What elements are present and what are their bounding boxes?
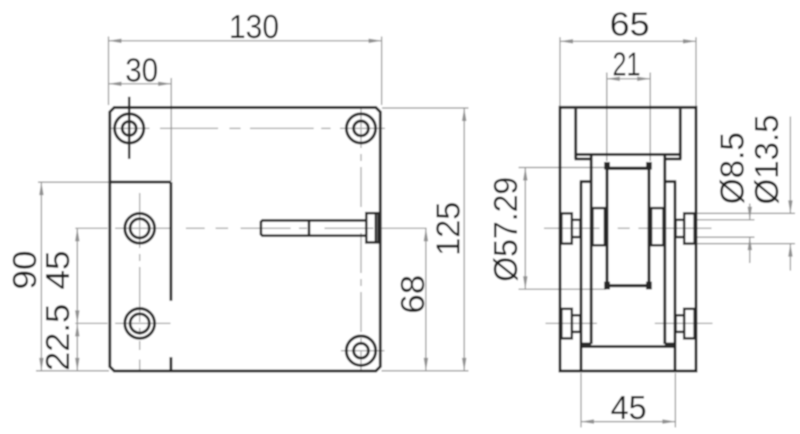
ext line 21 left (606, 73, 608, 162)
centerline top holes dash c (229, 127, 240, 129)
dim line 125 (463, 108, 465, 371)
centerline top holes dash a (111, 127, 150, 129)
ext line D13.5 bottom (698, 243, 796, 245)
hole top-left outer (115, 114, 144, 143)
centerline strip holes vertical bottom dash (139, 360, 141, 371)
dim line 68 (425, 228, 427, 371)
strip hole lower inner (130, 314, 149, 333)
roller top bar (606, 167, 651, 170)
lower bolt washer left (572, 315, 581, 332)
roller left edge (605, 162, 608, 289)
hole top-left inner (122, 121, 136, 135)
centerline bolt axis solid part a (75, 227, 107, 229)
arrow 45 top (75, 228, 79, 241)
centerline bolt axis dash d (299, 227, 307, 229)
arrow 30 right (158, 82, 171, 86)
svg-text:Ø13.5: Ø13.5 (749, 115, 786, 205)
centerline upper bolt dash a (544, 227, 600, 229)
ext line 65 right (695, 37, 697, 106)
arrow 45b right (662, 419, 675, 423)
svg-text:Ø8.5: Ø8.5 (714, 132, 751, 204)
ext line D57 bottom (519, 288, 607, 290)
arrow 65 right (683, 39, 696, 43)
ext line 130 left (108, 37, 110, 106)
roller bottom bar (606, 284, 651, 287)
bolt head (366, 213, 378, 242)
upper bolt head right (684, 213, 694, 243)
inner wall left (V4) (590, 154, 593, 344)
hole bottom-right outer (346, 336, 375, 365)
svg-text:125: 125 (431, 202, 468, 256)
arrow 130 right (369, 39, 382, 43)
ext line D13.5 top (698, 212, 796, 214)
lower bolt washer right (676, 315, 685, 332)
ext line 90/22.5 bottom (36, 370, 109, 372)
centerline strip hole lower b (115, 322, 170, 324)
svg-text:130: 130 (229, 9, 279, 46)
arrow 125 bottom (462, 358, 466, 371)
side plate left (V3) (580, 182, 583, 371)
step line (top of notch) (110, 181, 171, 184)
roller cap tab top-left (604, 162, 610, 170)
dim line D57 (524, 168, 526, 290)
arrow D8.5 lower (748, 237, 752, 250)
centerline right hole column lower run (360, 233, 362, 371)
arrow 45 bottom (75, 310, 79, 323)
centerline bolt axis dash b (216, 227, 229, 229)
dim line D8.5 lower (749, 237, 751, 263)
dim line 30 (109, 83, 172, 85)
centerline lower bolt dash a (546, 322, 597, 324)
plate outline (110, 108, 381, 372)
arrow 45b left (581, 419, 594, 423)
arrow D13.5 lower (788, 244, 792, 257)
upper bolt head left (561, 213, 571, 243)
dim line D13.5 upper (789, 117, 791, 214)
arrow 90 top (39, 182, 43, 195)
svg-text:68: 68 (395, 275, 432, 314)
arrow 130 left (109, 39, 122, 43)
centerline lower bolt dash b (655, 322, 713, 324)
svg-text:65: 65 (610, 6, 650, 43)
dim line 22.5 (76, 323, 78, 371)
svg-text:30: 30 (125, 52, 158, 89)
roller cap tab top-right (646, 162, 652, 170)
arrow 68 bottom (424, 358, 428, 371)
arrow D57 bottom (523, 276, 527, 289)
recess wall right (679, 109, 682, 159)
centerline right hole column upper run (360, 108, 362, 211)
dim line 21 (607, 78, 650, 80)
roller cap tab bottom-right (646, 282, 652, 290)
arrow 30 left (109, 82, 122, 86)
ext line D8.5 bottom (698, 236, 755, 238)
centerline top holes dash e (321, 127, 330, 129)
svg-text:90: 90 (7, 251, 44, 290)
dim line D8.5 upper (749, 204, 751, 220)
ext line 45 left (580, 373, 582, 427)
bolt head face line (375, 213, 377, 242)
dim line 45 (76, 228, 78, 323)
svg-text:45: 45 (611, 390, 647, 427)
centerline bolt axis extension to 68 dim (382, 227, 427, 229)
recess wall left (574, 109, 577, 159)
lower bolt head right (684, 309, 694, 339)
dim line 45 (581, 421, 675, 423)
upper bolt washer left (572, 220, 581, 237)
svg-text:Ø57.29: Ø57.29 (488, 177, 525, 282)
dim line 65 (560, 40, 696, 42)
notch vertical lower segment (169, 357, 172, 371)
spacer right (651, 208, 663, 245)
centerline upper bolt dash b (618, 227, 630, 229)
roller right edge (647, 162, 650, 289)
side plate cap right (664, 180, 677, 183)
upper bolt washer right (676, 220, 685, 237)
centerline strip hole lower a (75, 322, 107, 324)
ext line 30 right (170, 78, 172, 181)
arrow 90 bottom (39, 358, 43, 371)
bottom block top (581, 345, 675, 348)
hole top-right inner (354, 121, 369, 136)
arrow 22.5 bottom (75, 358, 79, 371)
spacer left (593, 208, 605, 245)
dim line D13.5 lower (789, 244, 791, 271)
arrow D13.5 upper (788, 200, 792, 213)
centerline bolt axis dash c (241, 227, 291, 229)
arrow D8.5 upper (748, 207, 752, 220)
strip hole upper inner (130, 219, 149, 238)
arrow D57 top (523, 168, 527, 181)
centerline bolt axis solid part b (115, 227, 171, 229)
centerline upper bolt dash c (638, 227, 711, 229)
ext line 90 top (38, 181, 109, 183)
hole bottom-right inner (354, 343, 369, 358)
dim line 130 (109, 40, 382, 42)
arrow 21 left (607, 77, 620, 81)
hole top-right outer (346, 114, 375, 143)
inner wall right (V4) (663, 154, 666, 344)
bottom block step right (665, 342, 675, 345)
recess step left (575, 157, 592, 160)
side plate right (V3) (674, 182, 677, 371)
arrow 125 top (462, 108, 466, 121)
roller cap tab bottom-left (604, 282, 610, 290)
ext line D8.5 top (698, 219, 755, 221)
centerline bottom-right hole (341, 350, 385, 352)
arrow 22.5 top (75, 323, 79, 336)
arrow 21 right (637, 77, 650, 81)
notch vertical upper segment (169, 182, 172, 301)
centerline strip holes vertical (139, 193, 141, 350)
ext line 125/68 bottom (382, 370, 469, 372)
ext line D57 top (519, 167, 607, 169)
lower bolt head left (561, 309, 571, 339)
outer frame (560, 107, 696, 371)
strip hole lower outer (125, 309, 155, 339)
arrow 65 left (560, 39, 573, 43)
bottom block step left (581, 342, 591, 345)
svg-text:22.5: 22.5 (40, 304, 77, 371)
recess bottom (575, 153, 682, 156)
centerline top holes dash b (160, 127, 218, 129)
bolt thread boundary (308, 220, 311, 235)
centerline bolt axis dash e (325, 227, 374, 229)
ext line 45 right (674, 373, 676, 427)
side plate cap left (580, 180, 593, 183)
ext line 130/125 right (381, 37, 383, 106)
ext line 125 top (382, 107, 469, 109)
dim line 90 (40, 182, 42, 371)
strip hole upper outer (125, 213, 155, 243)
ext line 21 right (649, 73, 651, 162)
recess step right (665, 157, 682, 160)
centerline bolt axis dash a (186, 227, 205, 229)
centerline top holes dash f (340, 127, 385, 129)
bolt shaft (261, 220, 366, 235)
arrow 68 top (424, 228, 428, 241)
svg-text:21: 21 (613, 46, 641, 83)
hole top-left axis mark (128, 97, 131, 159)
ext line 65 left (559, 37, 561, 106)
centerline top holes dash d (250, 127, 314, 129)
svg-text:45: 45 (40, 251, 77, 290)
